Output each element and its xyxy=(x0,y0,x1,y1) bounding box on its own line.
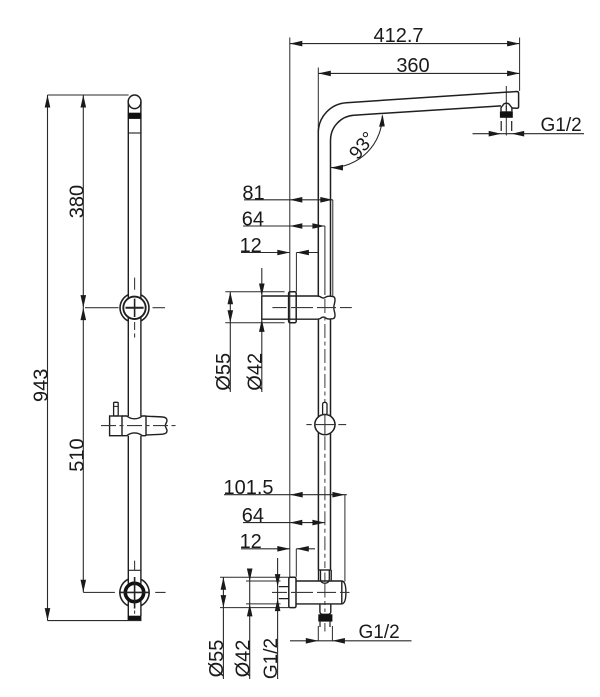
svg-text:943: 943 xyxy=(30,369,52,402)
dim dia55 upper extension lines xyxy=(225,292,284,323)
svg-text:12: 12 xyxy=(240,235,262,257)
svg-text:81: 81 xyxy=(242,182,264,204)
dim dia42 upper xyxy=(261,268,263,392)
shower arm outer contour (column left edge, bend, top edge, end cap) xyxy=(318,92,518,296)
dim 510 xyxy=(82,308,84,593)
upper wall bracket inner ring xyxy=(123,297,145,319)
dim 360 xyxy=(318,72,519,74)
dim 81 extension line xyxy=(332,200,334,297)
diverter housing sides xyxy=(319,570,332,581)
slider holder left block xyxy=(110,416,122,436)
dim dia42 lower xyxy=(249,569,251,679)
dim G1/2 bottom extension lines xyxy=(318,626,332,641)
rail bottom black band xyxy=(128,616,142,621)
rail top cap xyxy=(128,95,141,109)
bottom black band xyxy=(318,614,332,621)
column tube left edge xyxy=(317,319,319,570)
dim 12 lower extension line xyxy=(295,549,297,577)
dim dia55 lower xyxy=(222,577,224,679)
column bottom top edge xyxy=(319,569,332,571)
dim 81 xyxy=(244,199,333,201)
diverter knob tab xyxy=(323,402,327,415)
dim 101.5 xyxy=(224,494,347,496)
upper bracket horizontal centerline xyxy=(85,307,165,309)
rail tube right edge xyxy=(140,102,142,616)
dim G1/2 left xyxy=(277,558,279,679)
dim G1/2 bottom xyxy=(290,640,412,642)
svg-text:510: 510 xyxy=(66,438,88,471)
rail joint line bottom xyxy=(128,569,141,571)
dim 101.5 extension line xyxy=(344,495,346,582)
dim 12 upper xyxy=(241,252,290,254)
dim 64 lower xyxy=(243,522,325,524)
column vertical centerline xyxy=(324,299,326,632)
rail tube left edge xyxy=(127,102,129,616)
svg-text:G1/2: G1/2 xyxy=(261,638,282,679)
lower bracket wall flange xyxy=(289,577,296,607)
dim 943 bottom extension line xyxy=(48,620,142,622)
svg-text:Ø55: Ø55 xyxy=(213,353,235,391)
dim 64 upper xyxy=(243,225,325,227)
lower bracket vertical centerline xyxy=(134,561,136,614)
slider holder lever xyxy=(114,402,119,416)
lower bracket dia55 extension lines xyxy=(220,577,289,607)
wall reference extension line xyxy=(289,38,291,578)
diverter knob circle xyxy=(315,415,335,435)
dim 360 extension line xyxy=(317,68,319,134)
dim 64 upper extension line xyxy=(324,226,326,295)
svg-text:380: 380 xyxy=(66,185,88,218)
svg-text:360: 360 xyxy=(396,55,429,77)
head thread lines xyxy=(501,121,512,131)
svg-text:64: 64 xyxy=(242,209,264,231)
hose nut cup xyxy=(321,570,330,583)
svg-text:12: 12 xyxy=(240,531,262,553)
head axis extension line xyxy=(519,38,521,92)
svg-text:Ø42: Ø42 xyxy=(245,353,267,391)
slider holder middle body xyxy=(122,416,146,436)
slider holder right cap xyxy=(146,416,167,435)
svg-text:G1/2: G1/2 xyxy=(541,115,582,136)
lower bracket body xyxy=(296,581,346,604)
dim 943 xyxy=(47,95,49,621)
svg-text:G1/2: G1/2 xyxy=(359,622,400,643)
lower bracket elbow thick ring xyxy=(125,583,143,601)
lower bracket centerline xyxy=(272,591,350,593)
angle 93 arc xyxy=(331,116,382,168)
head black band xyxy=(500,111,513,118)
upper bracket body xyxy=(262,296,335,319)
dim dia55 upper xyxy=(229,292,231,392)
svg-text:412.7: 412.7 xyxy=(373,25,423,47)
shower arm inner contour (column right edge, bend, bottom edge) xyxy=(331,106,502,296)
svg-text:101.5: 101.5 xyxy=(223,477,273,499)
lower bracket horizontal centerline xyxy=(83,591,165,593)
bottom thread lines xyxy=(320,622,330,627)
rail joint line top xyxy=(128,132,141,134)
upper bracket wall flange xyxy=(289,292,297,323)
svg-text:Ø55: Ø55 xyxy=(206,640,228,678)
lower bracket dia42 extension lines xyxy=(246,581,281,604)
hose connector below body xyxy=(320,604,331,614)
lower wall bracket outer ring xyxy=(120,579,149,606)
head dome center tick xyxy=(505,106,507,111)
dim 12 lower xyxy=(241,548,290,550)
svg-text:64: 64 xyxy=(242,505,264,527)
rail top black band xyxy=(128,113,141,119)
upper wall bracket outer ring xyxy=(120,295,149,321)
diverter crosshair xyxy=(306,414,346,436)
upper bracket vertical centerline xyxy=(134,278,136,338)
column tube right edge xyxy=(330,319,332,570)
dim 12 upper extension line xyxy=(295,253,297,292)
dim 412.7 xyxy=(290,43,520,45)
upper bracket centerline xyxy=(272,307,351,309)
dim 380 xyxy=(82,95,84,308)
svg-text:Ø42: Ø42 xyxy=(232,640,254,678)
slider holder centerline xyxy=(101,425,176,427)
lower bracket G1/2 stub xyxy=(279,587,289,599)
dim 943 top extension line xyxy=(48,94,129,96)
shower head ball joint dome xyxy=(501,103,512,111)
dim G1/2 top xyxy=(473,133,585,135)
